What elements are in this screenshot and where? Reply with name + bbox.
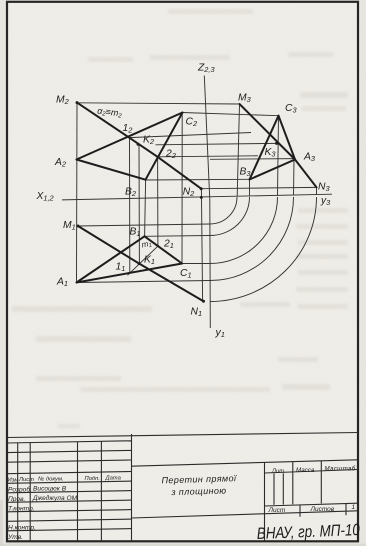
svg-text:M1: M1 [63,220,76,232]
edge B1-C1 [145,236,183,263]
svg-text:Т.контр.: Т.контр. [8,505,35,512]
svg-text:Н.контр.: Н.контр. [8,524,36,531]
svg-text:Листов: Листов [310,506,335,513]
svg-text:X1,2: X1,2 [36,191,54,203]
svg-text:K1: K1 [144,255,155,267]
point M1 [77,225,80,228]
svg-text:B1: B1 [130,227,141,239]
list row divider 1 [299,505,301,517]
point N1 [202,300,205,303]
svg-text:12: 12 [123,123,133,135]
point K1 [138,262,141,265]
horizontal N level line [201,187,316,188]
svg-text:Дата: Дата [105,476,122,482]
vertical N2-N1 projection line [201,189,202,302]
transfer horizontal C1 level [182,263,210,265]
svg-text:ВНАУ, гр. МП-10: ВНАУ, гр. МП-10 [256,521,360,544]
svg-text:22: 22 [165,149,176,161]
svg-text:A1: A1 [56,277,68,289]
edge A1-C1 [77,264,183,283]
svg-text:Изм: Изм [8,478,19,484]
column massa vertical [292,461,294,504]
svg-text:M2: M2 [56,95,69,107]
left table outline top [7,441,132,443]
main block centre vertical [264,462,266,541]
list row top line [265,503,358,506]
riser vertical M3 [237,104,239,197]
vertical 22-21 projection line [157,157,159,246]
svg-text:Розроб.: Розроб. [8,485,32,493]
horizontal A level line [210,158,295,161]
auxiliary cut line 11-21 [128,245,159,275]
transfer arc A [210,197,294,281]
edge B3-C3 [250,116,279,180]
svg-text:№ докум.: № докум. [38,477,64,483]
point dots [76,101,279,303]
left table column podp [100,441,102,541]
svg-text:Подп.: Подп. [85,476,100,482]
vertical M2-A1 projection line [76,103,79,283]
svg-text:21: 21 [163,239,174,251]
svg-text:N2: N2 [183,186,195,198]
left table row empty bottom [7,519,132,521]
vertical 12-11 projection line [129,138,131,274]
left table row prov bottom [7,500,132,502]
axis Z23 / y1 vertical [204,76,210,329]
edge A2-C2 [77,113,183,160]
point M2 [76,101,79,104]
svg-text:A2: A2 [54,157,66,169]
vertical C2-C1 projection line [181,113,183,264]
svg-text:Джеджула ОМ: Джеджула ОМ [32,494,78,502]
horizontal 2 level line [158,156,258,157]
left table header bottom [7,481,132,483]
edge C3-A3 [279,116,296,160]
transfer arc C [210,197,278,264]
left table header top [7,472,132,474]
svg-text:Лит.: Лит. [271,469,286,475]
svg-text:Масса: Масса [296,467,315,474]
lit subcell vertical 1 [273,474,275,505]
transfer horizontal A1 level [77,281,211,283]
svg-text:з площиною: з площиною [170,485,226,497]
left bottom corner shadow [0,500,3,546]
main block top line [132,460,358,466]
point K3 [275,142,278,145]
svg-text:C2: C2 [186,117,198,129]
point origin [200,196,203,199]
edge B3-A3 [250,160,296,180]
title block texts [7,466,361,544]
left table row rozrob bottom [7,491,132,493]
list row divider 2 [345,504,347,516]
faint bleed-through smudges [12,9,348,428]
edge A1-B1 [77,236,145,282]
svg-text:M3: M3 [238,93,252,105]
edge B2-C2 [146,113,183,180]
lit header bottom line [265,470,358,474]
svg-text:N3: N3 [318,182,330,194]
horizontal C level line [182,113,278,116]
thin projection / construction lines [62,76,332,329]
bottom edge shadow [0,544,366,546]
svg-text:11: 11 [116,262,126,274]
svg-text:Z2,3: Z2,3 [197,63,215,75]
riser vertical N3 [316,187,318,195]
transfer arc M [210,197,237,224]
svg-text:Масштаб: Масштаб [325,466,356,473]
svg-text:A3: A3 [303,152,316,164]
horizontal 1 level line [130,133,252,138]
column masshtab vertical [320,460,322,503]
svg-text:Пров.: Пров. [8,496,26,503]
transfer horizontal M1 level [78,224,210,226]
riser vertical A3 [293,159,296,196]
point K2 [137,143,140,146]
left table column list [29,443,31,542]
left table row line 1 [7,450,132,452]
thick geometry lines [77,103,317,302]
left table column izm [17,443,19,542]
svg-text:Лист: Лист [268,507,286,514]
vertical K2-K1 projection line [138,144,140,264]
transfer horizontal B1 level [145,235,210,238]
main block left edge [131,434,133,542]
svg-text:Лист: Лист [18,477,34,483]
left table column ndokum [77,442,79,542]
horizontal B level line [146,178,250,181]
line m2 (M2-N2) [77,103,201,189]
riser vertical C3-K3 [278,116,279,196]
svg-text:K3: K3 [265,147,277,159]
transfer arc N [210,197,317,302]
svg-text:1: 1 [352,504,356,511]
riser vertical B3 [249,179,251,196]
svg-text:Утв.: Утв. [7,534,23,541]
separator line above title block [7,433,358,438]
vertical B2-B1 projection line [145,180,146,237]
svg-text:y3: y3 [320,196,331,208]
svg-text:N1: N1 [191,307,203,319]
transfer arc B [210,197,250,236]
svg-text:B2: B2 [125,187,136,199]
point N2 [200,187,203,190]
horizontal K level line [156,143,277,144]
horizontal M level line [77,103,240,104]
lit subcell vertical 2 [282,473,284,504]
svg-text:C1: C1 [180,268,192,280]
line m1 (M1-N1) [78,226,204,301]
svg-text:Висоцюк В: Висоцюк В [33,486,67,493]
list row bottom line [132,511,358,518]
svg-text:C3: C3 [285,103,297,115]
edge A2-B2 [77,160,146,180]
line m3 (M3-A3-N3) [240,104,317,187]
svg-text:K2: K2 [143,135,154,147]
left table row tkontr bottom [7,510,132,512]
left table row line 2 [7,460,132,462]
axis X12 and y3 [62,194,332,200]
svg-text:B3: B3 [240,167,252,179]
left table row nkontr bottom [7,529,132,531]
